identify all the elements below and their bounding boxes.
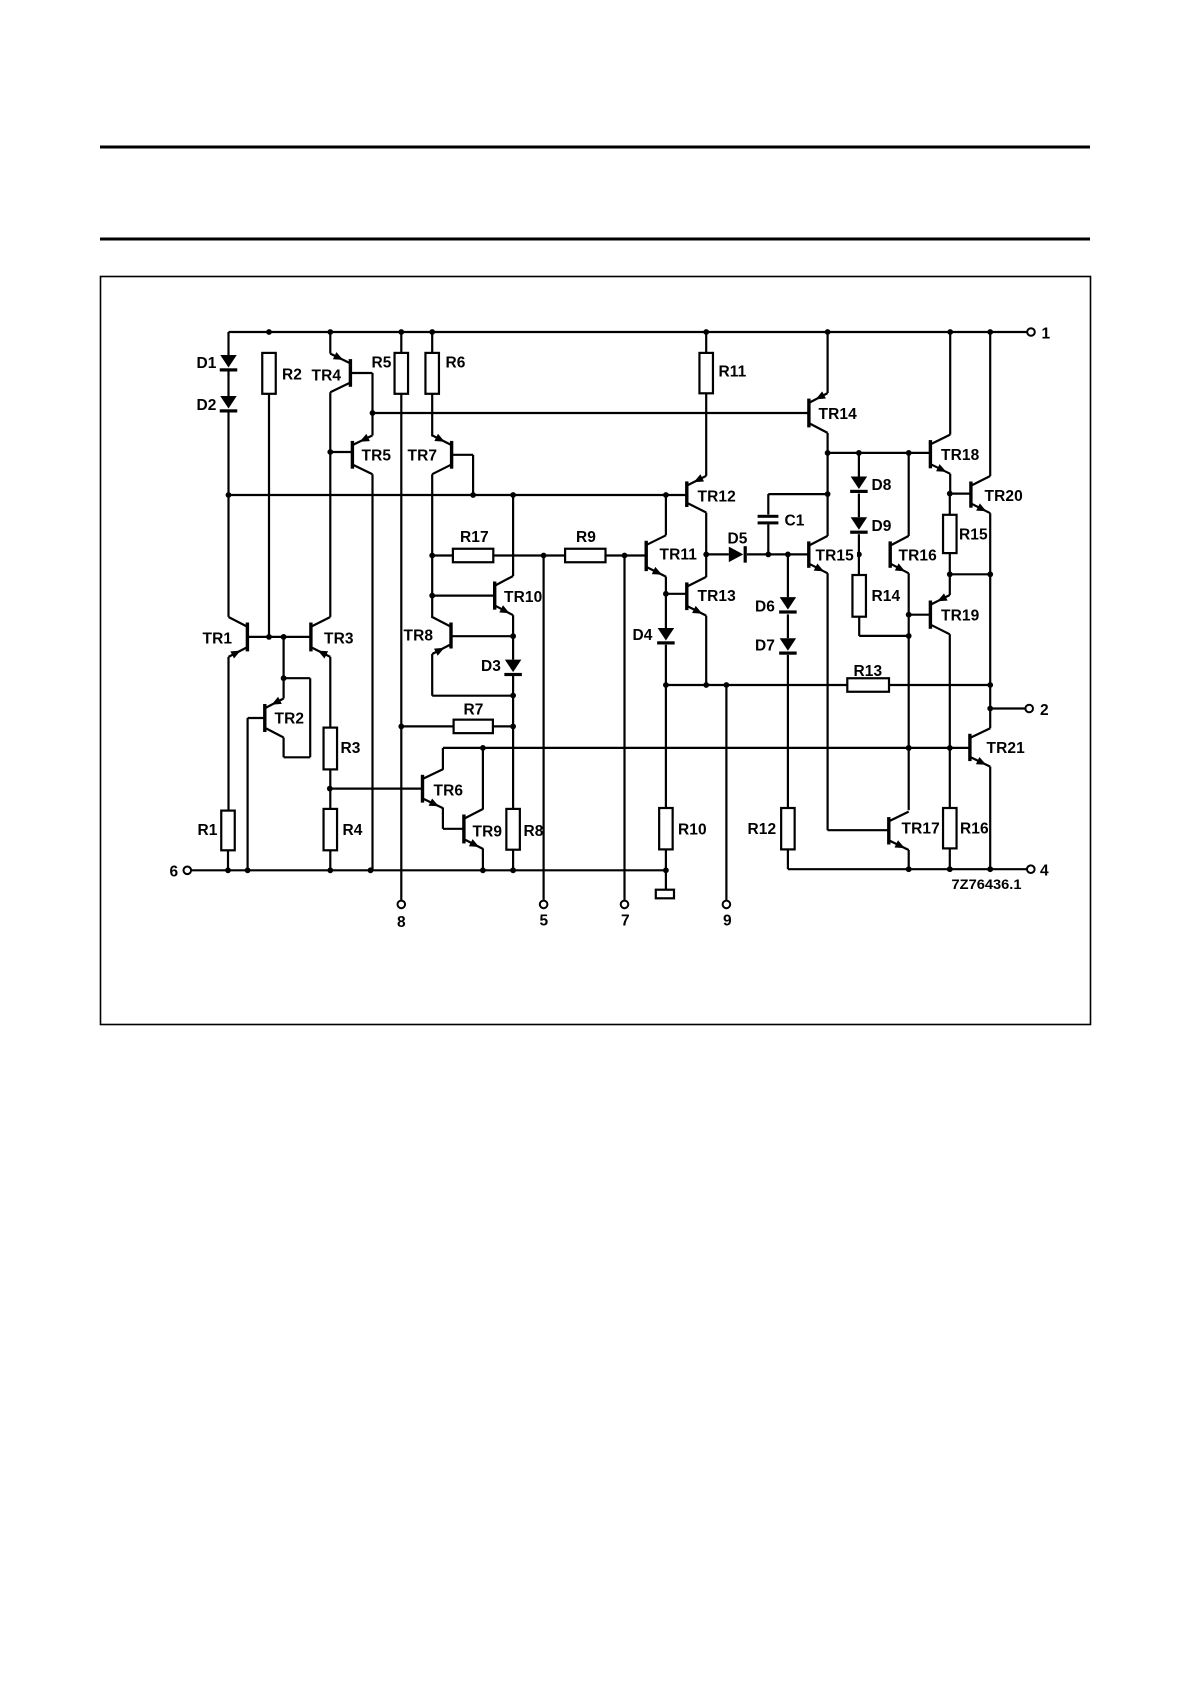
wire: TR4 collector / TR3 collector column — [327, 392, 333, 617]
transistor TR18 — [929, 435, 980, 474]
wire: R12 bottom corner — [787, 849, 789, 869]
wire: TR12 emitter to R11 — [705, 393, 707, 476]
wire: TR16 emitter column down to TR17 collector — [906, 573, 912, 810]
transistor TR7 — [408, 434, 454, 474]
wire: TR6 collector up to long line — [442, 748, 444, 770]
svg-text:R11: R11 — [719, 364, 747, 381]
wire: TR20 emitter column — [987, 513, 993, 728]
transistor TR13 — [685, 577, 736, 616]
diode D7 — [755, 638, 797, 655]
svg-text:TR20: TR20 — [985, 488, 1023, 505]
diode D8 — [850, 477, 892, 495]
svg-text:D8: D8 — [872, 477, 892, 494]
svg-text:D9: D9 — [872, 518, 892, 535]
svg-text:D6: D6 — [755, 599, 775, 616]
wire: TR14-TR18 base line — [825, 450, 931, 456]
svg-text:D3: D3 — [481, 658, 501, 675]
svg-text:R8: R8 — [524, 823, 544, 840]
top rule — [100, 146, 1090, 149]
wire: TR1 emitter to R1 — [227, 657, 229, 811]
svg-text:TR21: TR21 — [987, 740, 1026, 757]
transistor TR6 — [421, 769, 464, 808]
wire: TR21 emitter down — [989, 767, 991, 870]
resistor R9 — [565, 529, 605, 562]
wire: TR7 collector column — [429, 474, 435, 618]
wire: D3 node to R7/R8 column — [510, 696, 516, 809]
pin 5 terminal — [540, 901, 549, 930]
resistor R17 — [453, 529, 493, 562]
wire: TR9 collector up — [482, 748, 484, 810]
transistor TR9 — [462, 809, 502, 849]
svg-text:D2: D2 — [197, 397, 217, 414]
svg-text:TR2: TR2 — [275, 711, 305, 728]
svg-text:R15: R15 — [959, 527, 988, 544]
svg-text:6: 6 — [170, 864, 179, 881]
pin 7 terminal — [621, 901, 630, 930]
resistor R14 — [852, 575, 900, 617]
svg-text:TR12: TR12 — [698, 489, 736, 506]
wire: R16 bottom lead — [949, 848, 951, 869]
diode D1 — [197, 355, 238, 372]
transistor TR3 — [309, 617, 354, 659]
svg-text:TR4: TR4 — [312, 368, 342, 385]
wire: D6/D7 column — [787, 554, 789, 808]
wire: TR13 emitter down — [705, 616, 707, 685]
wire: TR16 collector up — [908, 453, 910, 536]
wire: TR14 emitter up — [826, 332, 828, 393]
resistor R3 — [324, 728, 361, 770]
drawing code 7Z76436.1 — [952, 877, 1023, 892]
transistor TR15 — [807, 536, 828, 573]
wire: R6 top lead — [431, 332, 433, 353]
wire: TR20 collector up — [989, 332, 991, 476]
svg-text:R12: R12 — [748, 821, 777, 838]
svg-text:TR9: TR9 — [473, 824, 503, 841]
svg-text:R9: R9 — [576, 529, 596, 546]
resistor R1 — [198, 811, 235, 851]
pin 4 terminal — [1027, 863, 1049, 880]
resistor R15 — [943, 515, 988, 553]
svg-text:D5: D5 — [728, 531, 748, 548]
wire: R10 bottom lead — [665, 849, 667, 870]
resistor R16 — [943, 808, 989, 848]
svg-text:R10: R10 — [678, 822, 707, 839]
wire: TR9 emitter down — [482, 848, 484, 870]
wire: R14 bottom link — [859, 617, 909, 636]
svg-text:TR5: TR5 — [362, 448, 392, 465]
substrate tab symbol — [656, 870, 674, 898]
svg-text:9: 9 — [723, 913, 732, 930]
svg-text:D4: D4 — [633, 627, 653, 644]
transistor TR21 — [968, 728, 1025, 766]
resistor R7 — [454, 702, 493, 734]
wire: TR19 emitter up — [949, 574, 951, 595]
wire: bottom rail left (pin 6 net) — [191, 867, 669, 873]
wire: TR5 collector down to bottom rail — [371, 474, 373, 870]
wire: pin 2 link — [990, 707, 1025, 709]
svg-text:TR15: TR15 — [816, 548, 855, 565]
transistor TR16 — [889, 536, 938, 573]
svg-text:7Z76436.1: 7Z76436.1 — [952, 877, 1023, 892]
resistor R10 — [659, 808, 707, 849]
resistor R5 — [372, 353, 409, 394]
svg-text:R17: R17 — [460, 529, 489, 546]
svg-text:7: 7 — [621, 913, 630, 930]
svg-text:4: 4 — [1040, 863, 1049, 880]
wire: R7 right lead — [493, 725, 513, 727]
resistor R12 — [748, 808, 795, 849]
wire: driver base line (TR4/TR5 to TR14) — [370, 410, 809, 416]
svg-text:1: 1 — [1042, 326, 1051, 343]
wire: TR5 emitter up — [371, 413, 373, 435]
wire: TR10 emitter down — [512, 615, 514, 636]
wire: TR17 emitter down — [908, 850, 910, 869]
wire: D5 cathode to TR15 base — [747, 552, 809, 558]
transistor TR17 — [887, 812, 940, 850]
svg-text:R16: R16 — [960, 821, 989, 838]
wire: R17-R9 link — [493, 553, 565, 559]
svg-text:TR16: TR16 — [899, 548, 938, 565]
svg-text:TR14: TR14 — [819, 406, 858, 423]
resistor R11 — [699, 353, 746, 393]
svg-text:TR18: TR18 — [941, 447, 980, 464]
wire: TR11 collector up — [665, 495, 667, 535]
resistor R4 — [324, 809, 363, 850]
wire: TR15 emitter down to TR17 base — [828, 573, 889, 830]
wire: TR8 emitter loop — [432, 654, 516, 698]
svg-text:TR8: TR8 — [404, 628, 434, 645]
wire: TR5 base — [330, 451, 352, 453]
wire: R5 top lead — [400, 332, 402, 353]
transistor TR1 — [203, 617, 250, 659]
wire: TR12/TR13 collector column — [703, 513, 709, 578]
wire: TR18 collector up — [949, 332, 951, 435]
wire: pin 7 column — [623, 556, 625, 901]
svg-text:TR17: TR17 — [902, 821, 940, 838]
wire: pin 5 column — [542, 556, 544, 901]
pin 9 terminal — [723, 901, 732, 930]
wire: R6 bottom to TR7 emitter — [431, 394, 433, 437]
svg-text:R7: R7 — [464, 702, 484, 719]
diode D9 — [850, 517, 892, 535]
wire: R16 top lead — [949, 748, 951, 808]
wire: TR6 base line — [330, 787, 423, 789]
wire: R15 top lead — [949, 494, 951, 515]
resistor R13 — [847, 663, 889, 692]
capacitor C1 — [758, 494, 828, 554]
wire: TR6 emitter to TR9 base — [443, 808, 464, 829]
svg-text:TR6: TR6 — [434, 783, 464, 800]
resistor R8 — [506, 809, 543, 850]
wire: TR8 base line — [451, 633, 516, 639]
wire: TR14 collector down — [826, 433, 828, 453]
wire: mid rail (TR12 base net) — [229, 492, 688, 498]
wire: D3 leads — [512, 636, 514, 695]
diode D6 — [755, 597, 797, 615]
wire: R1 bottom lead — [227, 850, 229, 870]
wire: pin 9 column — [725, 685, 727, 901]
wire: TR3 emitter to R3 — [329, 657, 331, 728]
svg-text:5: 5 — [540, 913, 549, 930]
svg-text:TR3: TR3 — [324, 631, 354, 648]
transistor TR8 — [404, 617, 453, 656]
wire: TR18 emitter down — [947, 474, 953, 497]
wire: D1/D2 column — [226, 332, 232, 617]
transistor TR4 — [312, 352, 353, 392]
wire: R17 left lead — [432, 554, 453, 556]
svg-text:R4: R4 — [343, 822, 363, 839]
wire: R4 top lead — [329, 789, 331, 809]
wire: D8/D9 column — [856, 453, 862, 575]
wire: R5/pin8 column — [398, 394, 404, 901]
diode D5 — [728, 531, 748, 563]
wire: R7 left lead — [401, 725, 453, 727]
wire: TR19 base line — [909, 614, 931, 616]
svg-text:R3: R3 — [341, 740, 361, 757]
transistor TR2 — [263, 697, 304, 738]
wire: TR10 base line — [432, 594, 495, 596]
pin 1 terminal — [1027, 326, 1050, 343]
svg-text:TR11: TR11 — [660, 547, 698, 564]
wire: long bias line (TR6 collector to TR21 base) — [443, 745, 970, 751]
second rule — [100, 238, 1090, 241]
svg-text:2: 2 — [1040, 702, 1049, 719]
schematic frame — [101, 277, 1091, 1025]
svg-text:R5: R5 — [372, 355, 392, 372]
label TR15 — [813, 545, 857, 565]
svg-text:8: 8 — [397, 914, 406, 931]
svg-text:R2: R2 — [282, 367, 302, 384]
wire: TR1/TR3 base line — [247, 634, 311, 640]
wire: TR7 base to mid rail — [452, 455, 474, 495]
svg-text:D1: D1 — [197, 355, 217, 372]
wire: top supply rail (pin 1 net) — [229, 329, 1028, 335]
wire: TR4 base to node — [350, 373, 372, 413]
wire: TR20 base line — [950, 493, 971, 495]
transistor TR19 — [929, 593, 980, 634]
diode D4 — [633, 627, 675, 645]
wire: TR11 emitter / D4 / R10 column — [663, 577, 669, 808]
wire: R15 bottom link — [947, 553, 993, 577]
svg-text:TR19: TR19 — [941, 608, 980, 625]
resistor R6 — [425, 353, 465, 394]
wire: TR2 base down to bottom rail — [248, 718, 265, 870]
wire: R8 bottom lead — [512, 850, 514, 871]
svg-text:R6: R6 — [446, 355, 466, 372]
wire: TR13 base line — [666, 593, 687, 595]
wire: R13 link line — [666, 682, 990, 688]
wire: R3 bottom to node — [327, 769, 333, 791]
wire: R2 bottom lead — [268, 394, 270, 637]
svg-text:TR10: TR10 — [504, 589, 542, 606]
diode D3 — [481, 658, 522, 676]
transistor TR11 — [645, 535, 698, 576]
pin 6 terminal — [170, 864, 192, 881]
transistor TR10 — [493, 576, 542, 615]
svg-text:TR7: TR7 — [408, 448, 438, 465]
wire: bottom rail right (pin 4 net) — [788, 866, 1027, 872]
wire: TR19 collector down — [949, 634, 951, 748]
transistor TR5 — [351, 434, 392, 474]
wire: TR2 collector loop — [284, 678, 311, 757]
wire: TR10 collector column — [512, 495, 514, 576]
svg-text:R14: R14 — [872, 588, 901, 605]
svg-text:R1: R1 — [198, 822, 218, 839]
svg-text:D7: D7 — [755, 638, 775, 655]
wire: TR2 collector riser — [281, 637, 287, 681]
wire: C1/TR15 collector column — [825, 453, 831, 536]
svg-text:R13: R13 — [854, 663, 883, 680]
transistor TR20 — [969, 476, 1023, 513]
resistor R2 — [262, 353, 302, 394]
wire: TR2 emitter up — [283, 678, 285, 698]
wire: R11 top lead — [705, 332, 707, 353]
wire: D5 anode lead — [706, 553, 729, 555]
diode D2 — [197, 396, 238, 414]
transistor TR14 — [807, 391, 857, 433]
pin 2 terminal — [1025, 702, 1048, 719]
pin 8 terminal — [397, 901, 406, 931]
transistor TR12 — [685, 474, 736, 512]
svg-text:TR13: TR13 — [698, 588, 737, 605]
svg-text:C1: C1 — [785, 513, 805, 530]
wire: TR4 emitter to rail — [329, 332, 331, 354]
wire: R4 bottom lead — [329, 850, 331, 870]
svg-text:TR1: TR1 — [203, 631, 233, 648]
wire: R9 right lead to TR11 base — [606, 553, 647, 559]
